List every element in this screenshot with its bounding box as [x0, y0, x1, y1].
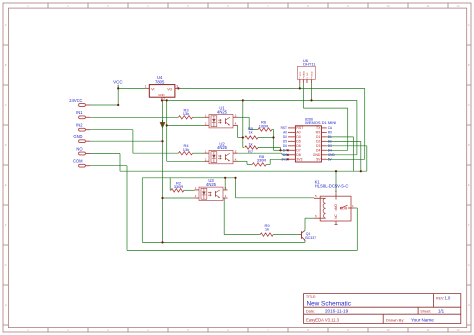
- wire to ESP D7: [274, 149, 289, 151]
- svg-text:RST: RST: [281, 126, 287, 130]
- wire VCC to U4 VI: [118, 87, 146, 89]
- svg-text:D3: D3: [316, 144, 320, 148]
- svg-text:NC: NC: [334, 214, 338, 219]
- svg-text:4N25: 4N25: [217, 145, 228, 150]
- svg-text:G: G: [5, 263, 7, 267]
- wire W2 to relay coil vertical: [235, 178, 237, 198]
- svg-text:D6: D6: [296, 144, 300, 148]
- svg-text:D5: D5: [283, 139, 287, 143]
- svg-text:D7: D7: [296, 149, 300, 153]
- svg-text:D4: D4: [316, 149, 320, 153]
- wire U1 emitter: [236, 124, 239, 126]
- node: [242, 99, 244, 101]
- wire DHT VCC down: [299, 83, 301, 88]
- connector pin NO: [76, 146, 90, 155]
- svg-text:1: 1: [145, 85, 147, 89]
- svg-text:GND: GND: [73, 134, 82, 139]
- wire IN2 to R4: [133, 152, 179, 154]
- svg-text:IN2: IN2: [76, 123, 83, 128]
- svg-text:D8: D8: [296, 153, 300, 157]
- wire U2 emitter: [237, 160, 247, 162]
- wire Q1 emitter vertical: [304, 240, 306, 242]
- optocoupler U1 4N25: [205, 114, 238, 128]
- wire U1 cathode: [167, 124, 205, 126]
- svg-text:2: 2: [163, 97, 165, 101]
- resistor R2: [171, 180, 184, 192]
- wire net W2 horizontal: [142, 177, 235, 179]
- node: [161, 99, 163, 101]
- sensor U6 DHT11: [297, 58, 316, 83]
- svg-text:EasyEDA V3.11.3: EasyEDA V3.11.3: [306, 317, 340, 322]
- wire U3 emitter vertical: [223, 198, 225, 235]
- svg-text:13k: 13k: [183, 111, 189, 116]
- svg-text:E: E: [5, 183, 7, 187]
- wire to R2: [169, 178, 171, 191]
- svg-text:GND: GND: [312, 71, 314, 76]
- wire R8 lead left: [247, 163, 252, 165]
- wire bend D8: [281, 153, 283, 155]
- resistor R8: [252, 154, 266, 166]
- wire GND vertical main: [162, 100, 164, 242]
- svg-text:D1: D1: [328, 135, 332, 139]
- node: [272, 136, 274, 138]
- svg-text:D4: D4: [328, 148, 332, 152]
- svg-text:11: 11: [427, 4, 430, 8]
- wire R6 branch vertical: [273, 130, 275, 151]
- svg-text:VCC: VCC: [300, 71, 302, 76]
- svg-text:12: 12: [457, 4, 460, 8]
- svg-text:HLS8L-DC5V-S-C: HLS8L-DC5V-S-C: [315, 184, 349, 189]
- svg-text:1/1: 1/1: [438, 309, 445, 314]
- svg-text:7805: 7805: [155, 79, 165, 84]
- wire DHT DATA down: [302, 83, 304, 108]
- ground: [160, 120, 165, 128]
- wire 5V rail: [178, 87, 364, 89]
- svg-text:1k: 1k: [248, 141, 252, 146]
- svg-text:NO: NO: [76, 146, 82, 151]
- wire R2 lead left: [169, 189, 172, 191]
- svg-text:1k: 1k: [265, 227, 269, 232]
- node: [287, 149, 289, 151]
- wire R7 lead left: [243, 147, 244, 149]
- wire COM bottom: [127, 249, 357, 251]
- node: [166, 124, 168, 126]
- wire R8 branch vertical: [269, 159, 271, 164]
- optocoupler U2 4N25: [205, 149, 238, 163]
- svg-text:WEMOS D1 MINI: WEMOS D1 MINI: [305, 120, 336, 125]
- wire R7 branch vertical: [280, 148, 282, 151]
- wire VCC vertical: [117, 85, 119, 105]
- svg-text:B: B: [468, 63, 470, 67]
- node: [310, 99, 312, 101]
- svg-text:E: E: [468, 183, 470, 187]
- svg-text:1k: 1k: [248, 130, 252, 135]
- svg-text:3V3: 3V3: [281, 157, 287, 161]
- node: [117, 104, 119, 106]
- resistor R5: [245, 126, 258, 139]
- svg-text:4N25: 4N25: [217, 109, 228, 114]
- node: [161, 241, 163, 243]
- svg-text:Sheet:: Sheet:: [420, 310, 431, 314]
- wire GND bottom: [142, 241, 305, 243]
- svg-text:D0: D0: [296, 135, 300, 139]
- power flag VCC: [113, 79, 123, 88]
- node: [242, 136, 244, 138]
- wire COM vertical: [126, 166, 128, 251]
- node: [177, 87, 179, 89]
- svg-text:BC337: BC337: [305, 236, 316, 240]
- wire to R8 vertical: [246, 161, 248, 164]
- svg-text:A0: A0: [283, 130, 287, 134]
- wire 24VCC pin: [90, 104, 118, 106]
- svg-text:D2: D2: [328, 139, 332, 143]
- svg-text:100R: 100R: [259, 123, 269, 128]
- svg-text:RST: RST: [296, 126, 303, 130]
- svg-text:D: D: [468, 143, 470, 147]
- svg-text:3: 3: [176, 85, 178, 89]
- wire U1 emitter vertical: [237, 125, 239, 137]
- svg-text:VCC: VCC: [113, 79, 123, 84]
- svg-text:IN1: IN1: [76, 110, 83, 115]
- node: [279, 149, 281, 151]
- resistor R9: [260, 223, 273, 236]
- wire IN2 seg1: [90, 129, 133, 131]
- node: [287, 154, 289, 156]
- svg-text:10: 10: [387, 4, 390, 8]
- wire to R6 vertical: [248, 117, 250, 129]
- connector pin GND: [73, 134, 90, 143]
- wire R8 lead right: [266, 163, 270, 165]
- node: [234, 177, 236, 179]
- wire 5V loop vertical: [364, 88, 366, 159]
- wire to relay coil+: [236, 197, 315, 199]
- wire ESP GND: [327, 154, 357, 156]
- svg-text:D2: D2: [316, 140, 320, 144]
- wire U2 collector: [237, 152, 282, 154]
- svg-text:5V: 5V: [316, 158, 321, 162]
- wire ESP D1: [327, 136, 354, 138]
- module U5 ESP8266 WEMOS D1 MINI: [281, 117, 337, 162]
- svg-text:DATA: DATA: [302, 71, 305, 77]
- wire GND to pulldowns: [242, 100, 244, 147]
- node: [161, 140, 163, 142]
- node: [335, 170, 337, 172]
- node: [299, 87, 301, 89]
- svg-text:D6: D6: [283, 144, 287, 148]
- svg-text:D7: D7: [283, 148, 287, 152]
- connector pin IN2: [76, 123, 90, 132]
- svg-text:GND: GND: [313, 153, 321, 157]
- svg-text:COM: COM: [73, 159, 83, 164]
- relay K1 HLS8L-DC5V-S-C: [314, 179, 354, 224]
- svg-text:Date:: Date:: [306, 310, 315, 314]
- svg-text:330R: 330R: [174, 184, 184, 189]
- svg-text:B: B: [5, 63, 7, 67]
- svg-text:VO: VO: [167, 88, 172, 92]
- svg-text:D8: D8: [283, 153, 287, 157]
- transistor Q1 BC337: [300, 231, 317, 241]
- optocoupler U3 4N25: [195, 186, 228, 200]
- svg-text:10: 10: [387, 328, 390, 332]
- wire IN2 vertical: [132, 130, 134, 154]
- wire NO vertical: [119, 154, 121, 172]
- wire U2 cathode: [167, 160, 205, 162]
- wire U3 cathode: [163, 197, 195, 199]
- wire R4 to U2 anode: [193, 152, 205, 154]
- wire W2 left vertical: [141, 178, 143, 243]
- svg-text:D3: D3: [328, 144, 332, 148]
- wire Q1 collector to coil: [305, 217, 314, 219]
- wire ESP D3: [327, 145, 367, 147]
- svg-text:2016-11-19: 2016-11-19: [325, 309, 349, 314]
- wire GND loop vertical: [356, 100, 358, 154]
- svg-text:NC: NC: [307, 72, 309, 76]
- wire GND pin: [90, 140, 163, 142]
- wire DATA vertical right: [347, 108, 349, 150]
- svg-text:330R: 330R: [257, 158, 267, 163]
- svg-text:NO: NO: [334, 204, 338, 209]
- wire R5 lead left: [238, 137, 244, 139]
- wire ESP 5V: [327, 158, 365, 160]
- wire DHT DATA horizontal: [303, 107, 347, 109]
- wire R9 to Q1 base: [273, 234, 299, 236]
- svg-text:G: G: [468, 263, 470, 267]
- svg-text:D1: D1: [316, 135, 320, 139]
- node: [166, 99, 168, 101]
- svg-text:1.0: 1.0: [445, 296, 451, 301]
- connector pin 24VCC: [69, 98, 90, 107]
- svg-text:H: H: [468, 303, 470, 307]
- svg-text:New Schematic: New Schematic: [307, 301, 352, 308]
- wire D2 vertical: [360, 141, 362, 171]
- svg-text:REV:: REV:: [436, 297, 444, 301]
- wire DHT GND down: [311, 83, 313, 100]
- svg-text:A: A: [468, 23, 470, 27]
- wire R6 lead left: [249, 129, 258, 131]
- connector pin COM: [73, 159, 90, 168]
- svg-text:RX: RX: [316, 131, 321, 135]
- wire to ESP D8: [282, 154, 288, 156]
- node: [287, 158, 289, 160]
- node: [117, 87, 119, 89]
- svg-text:D5: D5: [296, 140, 300, 144]
- wire cathode return vertical: [166, 100, 168, 161]
- svg-text:DHT11: DHT11: [303, 61, 316, 66]
- wire COM pin: [90, 165, 127, 167]
- resistor R6: [258, 120, 272, 132]
- svg-text:H: H: [5, 303, 7, 307]
- svg-text:A: A: [5, 23, 7, 27]
- wire to R9: [224, 234, 260, 236]
- node: [161, 197, 163, 199]
- wire U1 collector: [237, 116, 250, 118]
- resistor R4: [178, 143, 192, 155]
- wire Q1 collector vertical: [304, 218, 306, 230]
- svg-text:D: D: [5, 143, 7, 147]
- svg-text:24VCC: 24VCC: [69, 98, 82, 103]
- svg-text:COM: COM: [340, 207, 348, 211]
- svg-text:D0: D0: [283, 135, 287, 139]
- connector pin IN1: [76, 110, 90, 119]
- wire relay COM vertical: [356, 208, 358, 250]
- wire ESP D2: [327, 140, 361, 142]
- svg-text:A0: A0: [296, 131, 300, 135]
- wire R3 to U1 anode: [193, 116, 205, 118]
- wire D3 vertical: [366, 146, 368, 171]
- wire relay COM out: [354, 207, 357, 209]
- resistor R3: [178, 107, 192, 119]
- wire U3 collector vertical: [224, 178, 226, 191]
- svg-text:13k: 13k: [183, 147, 189, 152]
- wire D1 vertical: [353, 137, 355, 171]
- svg-text:Drawn By:: Drawn By:: [386, 317, 404, 322]
- wire ESP D4: [327, 149, 348, 151]
- wire R2 to U3 anode: [184, 189, 195, 191]
- svg-text:12: 12: [457, 328, 460, 332]
- svg-text:VI: VI: [151, 88, 154, 92]
- wire R5 lead right: [258, 137, 274, 139]
- wire R6 lead right: [272, 129, 274, 131]
- svg-text:11: 11: [427, 328, 430, 332]
- wire R7 lead right: [258, 147, 281, 149]
- wire GND rail: [162, 99, 357, 101]
- svg-text:R7: R7: [248, 149, 254, 154]
- svg-text:GND: GND: [328, 153, 336, 157]
- node: [360, 170, 362, 172]
- wire net W1 horizontal: [120, 170, 367, 172]
- svg-text:3V3: 3V3: [296, 158, 302, 162]
- svg-text:C: C: [468, 103, 470, 107]
- svg-text:TITLE:: TITLE:: [306, 295, 316, 299]
- svg-text:Your Name: Your Name: [411, 318, 434, 323]
- svg-text:TX: TX: [316, 126, 321, 130]
- svg-text:4N25: 4N25: [206, 182, 217, 187]
- resistor 1k: [245, 141, 258, 153]
- regulator U4 7805: [145, 75, 179, 101]
- svg-text:C: C: [5, 103, 7, 107]
- wire to ESP 3V3: [270, 158, 288, 160]
- wire NO pin: [90, 153, 120, 155]
- wire IN1 to R3: [90, 116, 178, 118]
- wire to relay NO: [335, 171, 337, 194]
- node: [224, 177, 226, 179]
